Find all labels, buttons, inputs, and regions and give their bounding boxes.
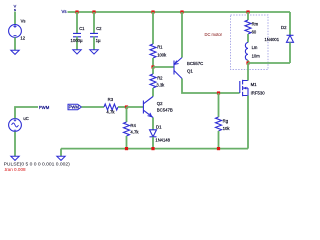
svg-text:Rg: Rg xyxy=(223,118,229,123)
junction rail/R1 xyxy=(151,10,154,13)
capacitor C1 xyxy=(73,12,81,50)
svg-text:C1: C1 xyxy=(79,26,85,31)
svg-text:100k: 100k xyxy=(157,53,167,58)
junction R3/R4/Q2 base xyxy=(125,105,128,108)
inductor Lm xyxy=(245,43,248,64)
svg-text:R4: R4 xyxy=(130,123,136,128)
wire V1 top xyxy=(14,12,16,25)
svg-text:.tran 0.008: .tran 0.008 xyxy=(4,167,26,171)
junction rail/C1 xyxy=(75,10,78,13)
svg-text:M1: M1 xyxy=(251,82,258,87)
svg-text:uC: uC xyxy=(23,116,28,121)
svg-text:1000µ: 1000µ xyxy=(71,38,84,43)
svg-text:1µ: 1µ xyxy=(96,38,101,43)
mosfet M1 IRF530 xyxy=(240,80,248,96)
junction rail/R4 xyxy=(125,147,128,150)
junction rail/C2 xyxy=(92,10,95,13)
wire motor node to D2 xyxy=(248,62,290,64)
svg-text:Q2: Q2 xyxy=(157,101,163,106)
resistor R3 (horizontal) xyxy=(104,104,118,110)
junction node R1/R2/Q1-base xyxy=(151,65,154,68)
junction gate/Rg xyxy=(217,91,220,94)
ground C1 xyxy=(73,50,81,54)
svg-text:1N4148: 1N4148 xyxy=(155,137,170,142)
voltage source V1 xyxy=(9,25,22,38)
wire R3 to node xyxy=(118,106,127,108)
wire PWM flag to R3 xyxy=(82,106,105,108)
svg-text:12: 12 xyxy=(20,35,25,40)
svg-text:3.3k: 3.3k xyxy=(156,83,165,88)
svg-text:DC motor: DC motor xyxy=(205,32,223,37)
wire rail to ground xyxy=(60,149,62,157)
junction rail/Q1 emitter xyxy=(180,10,183,13)
svg-text:4.7k: 4.7k xyxy=(130,130,139,135)
svg-text:R1: R1 xyxy=(157,45,163,50)
ground C2 xyxy=(90,50,98,54)
ground rail wire xyxy=(61,148,248,150)
wire Q1 collector to M1 gate xyxy=(182,79,240,94)
resistor Rm xyxy=(245,12,251,43)
svg-text:D2: D2 xyxy=(281,25,287,30)
svg-text:D1: D1 xyxy=(156,125,162,130)
ground V1 xyxy=(11,50,19,54)
ground rail symbol xyxy=(57,156,65,160)
svg-text:4.7k: 4.7k xyxy=(106,110,115,115)
capacitor C2 xyxy=(90,12,98,50)
svg-text:R2: R2 xyxy=(157,76,163,81)
wire Q1 emitter to rail xyxy=(181,12,183,58)
resistor R2 xyxy=(150,67,156,97)
wire M1 source to rail xyxy=(247,96,249,149)
svg-text:60: 60 xyxy=(252,29,257,34)
resistor Rg xyxy=(216,93,222,149)
svg-text:R3: R3 xyxy=(108,97,114,102)
svg-text:Lm: Lm xyxy=(252,45,258,50)
svg-text:PWM: PWM xyxy=(39,105,50,110)
svg-text:BC547B: BC547B xyxy=(157,108,173,113)
motor box (dashed) xyxy=(231,15,269,70)
svg-text:Q1: Q1 xyxy=(187,69,193,74)
svg-text:Rm: Rm xyxy=(252,21,259,26)
wire M1 drain xyxy=(247,63,249,81)
wire node to Q2 base xyxy=(127,106,144,108)
junction rail/motor xyxy=(246,10,249,13)
svg-text:IRF530: IRF530 xyxy=(251,90,266,95)
svg-text:C2: C2 xyxy=(96,26,102,31)
junction motor bottom node xyxy=(246,61,249,64)
wire node to Q1 base xyxy=(153,66,174,68)
wire V1 bottom xyxy=(14,37,16,50)
svg-text:Vs: Vs xyxy=(62,9,67,14)
junction rail/D1 xyxy=(151,147,154,150)
wire V2 bottom xyxy=(14,132,16,157)
svg-text:s: s xyxy=(14,7,16,12)
svg-text:BC557C: BC557C xyxy=(187,61,203,66)
PWM source V2 (uC) xyxy=(9,119,22,132)
svg-text:1N4001: 1N4001 xyxy=(265,37,280,42)
ground V2 xyxy=(11,156,19,160)
net label Vs (vertical at V1 top) xyxy=(14,4,17,12)
port flag PWM xyxy=(68,104,82,110)
junction rail/Rg xyxy=(217,147,220,150)
resistor R4 xyxy=(124,107,130,149)
wire V2 top to PWM label xyxy=(15,107,38,118)
svg-text:PWM: PWM xyxy=(69,105,80,110)
svg-text:10m: 10m xyxy=(252,54,261,59)
diode D1 1N4148 xyxy=(150,118,157,149)
resistor R1 xyxy=(150,12,156,67)
svg-text:10k: 10k xyxy=(223,126,231,131)
svg-text:Vs: Vs xyxy=(21,18,26,23)
transistor Q2 BC547B (NPN) xyxy=(143,97,153,118)
wire top rail Vs xyxy=(68,11,291,13)
diode D2 1N4001 (freewheel) xyxy=(287,12,294,63)
transistor Q1 BC557C (PNP) xyxy=(174,58,182,79)
